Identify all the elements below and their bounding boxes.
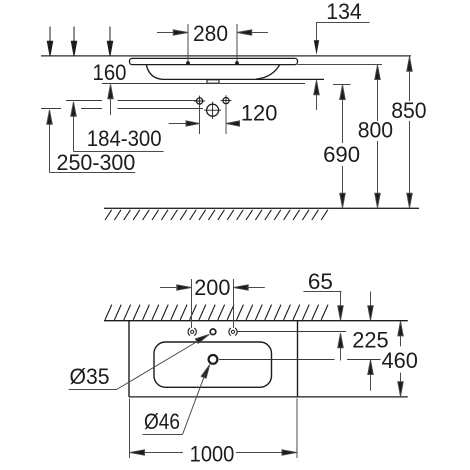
dim 184-300 shelf line — [74, 151, 164, 153]
holes axis line — [237, 331, 347, 333]
svg-text:280: 280 — [193, 21, 228, 46]
dim 225 upper arrow — [368, 292, 373, 321]
svg-text:690: 690 — [323, 142, 360, 167]
svg-text:1000: 1000 — [190, 441, 235, 466]
dim 800 lower arrow — [375, 141, 380, 208]
svg-text:120: 120 — [241, 100, 278, 125]
dim 800 ref line — [298, 64, 383, 66]
drain stub side — [207, 80, 219, 83]
node load arrow 3 — [107, 27, 112, 56]
bowl right curve — [256, 65, 280, 80]
dim 200 ext line left — [191, 279, 193, 328]
dim 690 lower arrow — [340, 166, 345, 208]
svg-text:200: 200 — [194, 275, 230, 300]
faucet dot right side view — [235, 61, 239, 65]
node load arrow 2 — [71, 27, 76, 56]
dim 200 left arrow — [160, 285, 192, 290]
leader 35 line and arrow — [117, 334, 210, 389]
drain axis line — [219, 359, 381, 361]
dim 160 arrow — [108, 84, 113, 115]
dim 200 right arrow — [234, 285, 265, 290]
dim 120 ext lines — [200, 104, 227, 134]
svg-text:Ø46: Ø46 — [144, 409, 180, 434]
dim 280 right arrow — [237, 30, 268, 35]
dim 690 ref line — [333, 84, 351, 86]
paren hole left — [188, 328, 196, 336]
svg-text:800: 800 — [358, 117, 393, 142]
svg-text:184-300: 184-300 — [87, 126, 162, 151]
dim 1000 ext line right — [296, 399, 298, 459]
dim 800 upper arrow — [375, 65, 380, 121]
dim 120 right arrow — [226, 121, 240, 126]
wall line plan view — [104, 320, 408, 322]
dim 184-300 arrow — [71, 102, 76, 152]
counter left edge — [128, 321, 130, 397]
dim 1000 left arrow — [130, 450, 183, 455]
dim 134 arrowhead — [314, 40, 319, 55]
dim 134 leader — [317, 23, 370, 42]
svg-text:134: 134 — [326, 0, 362, 24]
supply line lower — [41, 108, 203, 110]
short arrow at bowl bottom level — [314, 80, 319, 110]
dim 850 upper arrow — [407, 57, 412, 101]
wire wall line top view — [41, 55, 411, 57]
svg-text:460: 460 — [382, 348, 418, 373]
drain hole circle center — [204, 102, 221, 119]
dim 225 lower arrow — [368, 360, 373, 391]
dim 120 left arrow — [169, 121, 200, 126]
dim 250-300 arrow — [47, 110, 52, 173]
dim 65 shelf and down arrow — [303, 292, 343, 321]
leader 46 line and arrow — [183, 365, 210, 435]
counter right edge — [297, 321, 299, 397]
svg-text:160: 160 — [93, 60, 127, 85]
dim 280 ext line left — [187, 24, 189, 63]
floor line side view — [104, 207, 419, 209]
under-basin line L1 — [102, 83, 305, 85]
dim 280 left arrow — [157, 30, 188, 35]
supply line upper — [66, 100, 196, 102]
svg-text:850: 850 — [391, 98, 426, 123]
dim 1000 right arrow — [236, 450, 297, 455]
supply hole circle left — [194, 96, 205, 107]
dim 200 ext line right — [233, 279, 235, 328]
wall hatching plan — [105, 305, 328, 320]
leader 35 shelf — [69, 389, 117, 391]
basin outline plan — [154, 342, 272, 387]
dim 65 up arrow below — [338, 333, 343, 360]
floor hatching — [105, 210, 328, 220]
bowl outline side — [146, 65, 324, 80]
dim 690 upper arrow — [340, 85, 345, 143]
dim 280 ext line right — [236, 24, 238, 63]
dim 1000 ext line left — [129, 399, 131, 459]
faucet dot left side view — [186, 61, 190, 65]
svg-text:65: 65 — [308, 269, 333, 294]
dim 250-300 shelf line — [50, 172, 136, 174]
node load arrow 1 — [47, 27, 52, 56]
svg-text:250-300: 250-300 — [57, 150, 136, 175]
faucet hole plan — [210, 329, 216, 335]
svg-text:Ø35: Ø35 — [70, 364, 110, 389]
counter bottom edge — [129, 396, 408, 398]
dim 460 upper arrow — [398, 321, 403, 346]
leader 46 shelf — [143, 434, 183, 436]
supply hole circle right — [221, 95, 232, 106]
drain hole plan — [209, 355, 218, 364]
paren hole right — [229, 328, 237, 336]
basin slab side profile — [130, 58, 298, 64]
dim 460 lower arrow — [398, 373, 403, 397]
dim 850 lower arrow — [407, 121, 412, 208]
